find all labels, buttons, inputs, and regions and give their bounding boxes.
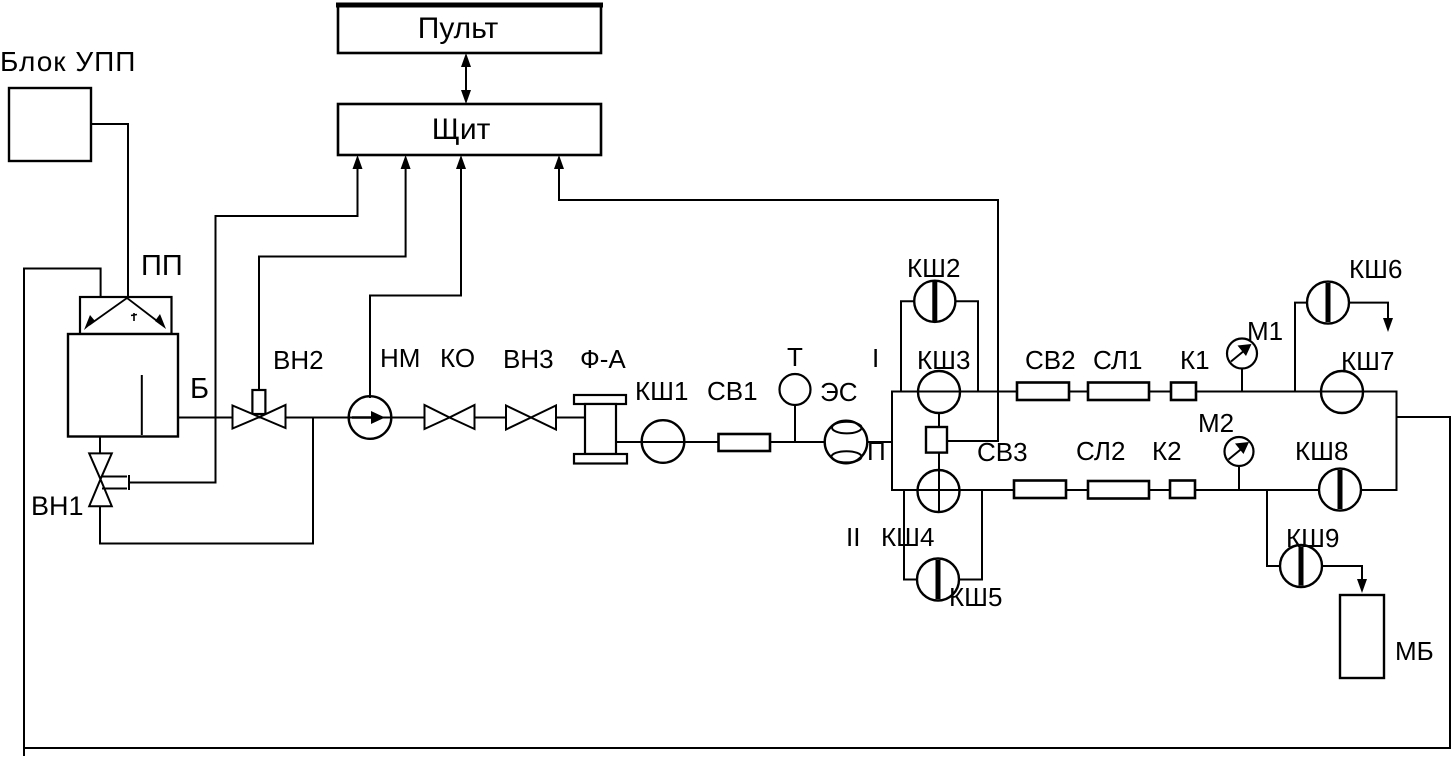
filter F-A bottom flange: [574, 454, 627, 464]
hose SV1: [719, 434, 771, 451]
svg-text:КО: КО: [440, 343, 475, 373]
check valve KO: [425, 405, 475, 429]
box Shchit: [338, 104, 601, 155]
svg-text:МБ: МБ: [1395, 636, 1434, 666]
arrowhead into shchit C: [456, 155, 466, 169]
svg-text:СЛ1: СЛ1: [1093, 345, 1142, 375]
svg-text:ПП: ПП: [141, 250, 183, 282]
svg-text:Блок УПП: Блок УПП: [0, 46, 136, 77]
wire: PP to big left loop: [24, 269, 1450, 757]
tank MB: [1340, 595, 1384, 678]
thermometer T: [780, 374, 811, 405]
gauge M2: [1225, 437, 1254, 466]
svg-text:КШ6: КШ6: [1349, 254, 1402, 284]
wire: KSh9 branch: [1267, 490, 1280, 566]
sensor PP box: [80, 297, 172, 334]
ball valve KSh5: [917, 559, 959, 601]
svg-text:КШ9: КШ9: [1286, 523, 1339, 553]
ball valve KSh8: [1319, 469, 1361, 511]
svg-text:КШ4: КШ4: [881, 522, 934, 552]
sensor PP arrows: [89, 298, 161, 325]
pump NM: [349, 396, 392, 439]
wire: KSh6 outlet with arrow: [1349, 303, 1388, 322]
arrowhead up pult: [461, 53, 471, 67]
sensor PP small mark: [131, 313, 137, 321]
svg-text:Ф-А: Ф-А: [580, 344, 626, 374]
ball valve KSh2: [914, 281, 955, 322]
wire: VN1 bypass bottom: [100, 418, 313, 544]
valve VN2 stem: [252, 390, 265, 414]
wire: manifold right edge: [1396, 392, 1398, 491]
valve VN1 handle: [102, 475, 129, 490]
svg-text:Пульт: Пульт: [418, 12, 499, 45]
svg-text:КШ8: КШ8: [1295, 436, 1348, 466]
svg-text:СВ3: СВ3: [977, 437, 1028, 467]
svg-text:ВН1: ВН1: [31, 491, 84, 521]
box Pult: [338, 4, 601, 53]
wire: main line left section: [178, 417, 585, 419]
svg-text:М1: М1: [1247, 316, 1283, 346]
svg-text:Щит: Щит: [432, 113, 491, 146]
filter F-A body: [585, 404, 616, 454]
tank B: [68, 334, 178, 437]
ball valve KSh9: [1280, 545, 1322, 587]
svg-text:Б: Б: [190, 373, 209, 405]
svg-text:КШ3: КШ3: [917, 345, 970, 375]
wire: KSh2 bypass: [901, 301, 915, 391]
arrowhead KSh6 vent: [1383, 318, 1393, 332]
svg-text:П: П: [867, 436, 886, 466]
connector K2: [1170, 481, 1195, 499]
svg-text:ЭС: ЭС: [820, 377, 857, 407]
wire: M1 stem: [1241, 368, 1243, 392]
svg-text:ВН3: ВН3: [503, 344, 554, 374]
wire: shchit arrow A vertical: [216, 166, 358, 483]
svg-text:II: II: [846, 522, 860, 552]
svg-text:ВН2: ВН2: [273, 345, 324, 375]
wire: manifold left edge: [891, 392, 893, 491]
svg-text:КШ5: КШ5: [949, 582, 1002, 612]
wire: KSh6 branch: [1295, 303, 1307, 392]
wire: main line right section: [616, 441, 892, 443]
wire: shchit arrow C vertical: [370, 166, 461, 397]
wire: SV3 square to KSh4: [938, 453, 940, 512]
wire: T thermometer stem: [794, 405, 796, 443]
svg-text:Т: Т: [787, 342, 803, 372]
hose SV2: [1017, 383, 1069, 401]
valve VN3: [506, 406, 556, 430]
arrowhead into shchit B: [401, 155, 411, 169]
svg-text:НМ: НМ: [380, 343, 420, 373]
tank B inner level line: [141, 375, 143, 435]
svg-text:СВ2: СВ2: [1025, 345, 1076, 375]
gauge M1: [1227, 339, 1257, 369]
meter ES: [825, 421, 868, 464]
svg-text:КШ1: КШ1: [635, 376, 688, 406]
svg-text:СВ1: СВ1: [707, 376, 758, 406]
arrowhead into shchit D: [554, 155, 564, 169]
wire: blok UPP to PP sensor: [91, 124, 128, 297]
wire: manifold bottom line: [892, 489, 1397, 491]
connector K1: [1171, 383, 1196, 401]
svg-text:КШ2: КШ2: [907, 253, 960, 283]
svg-text:СЛ2: СЛ2: [1076, 436, 1125, 466]
arrowhead KSh9 to MB: [1357, 579, 1367, 593]
valve VN1: [89, 453, 112, 506]
box Blok UPP: [9, 88, 91, 161]
wire: KSh3 to SV3 square: [938, 413, 940, 427]
wire: pult-shchit double arrow: [465, 62, 467, 96]
svg-text:I: I: [872, 343, 879, 373]
hose SV3 square: [926, 427, 947, 453]
filter F-A top flange: [574, 395, 626, 404]
svg-text:К1: К1: [1180, 345, 1210, 375]
wire: shchit arrow D from flow sensor: [559, 166, 998, 441]
wire: tank bottom stub: [99, 437, 101, 454]
hose SL1: [1088, 383, 1149, 401]
hose SL2: [1088, 481, 1149, 499]
ball valve KSh4: [918, 470, 960, 512]
svg-text:К2: К2: [1152, 436, 1182, 466]
wire: KSh9 outlet to MB: [1322, 566, 1362, 583]
wire: KSh5 bypass: [904, 491, 917, 580]
svg-text:М2: М2: [1198, 408, 1234, 438]
ball valve KSh7: [1321, 371, 1363, 413]
arrowhead down shchit: [461, 90, 471, 104]
wire: manifold top line: [892, 391, 1397, 393]
ball valve KSh3: [918, 371, 960, 413]
ball valve KSh6: [1307, 282, 1349, 324]
valve VN2: [233, 405, 286, 429]
hose on lower line: [1014, 481, 1066, 499]
svg-text:КШ7: КШ7: [1341, 346, 1394, 376]
arrowhead into shchit A: [353, 155, 363, 169]
wire: shchit arrow B vertical: [259, 166, 406, 390]
wire: VN1 handle to panel line: [129, 482, 216, 484]
wire: M2 stem: [1238, 466, 1240, 490]
ball valve KSh1: [642, 420, 685, 463]
